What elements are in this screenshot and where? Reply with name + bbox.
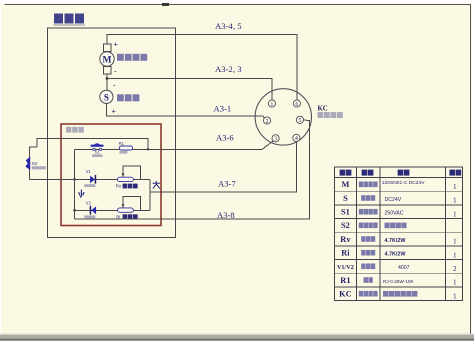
resistor R1 value (119, 151, 127, 154)
label 送丝电机 (feed motor) (117, 54, 147, 61)
diode V2 value (84, 215, 95, 218)
svg-text:+: + (114, 40, 119, 49)
pin 1 (268, 100, 275, 107)
svg-text:1: 1 (453, 280, 456, 287)
wire A3-4,5 from motor + terminal to pin6 (107, 35, 297, 101)
table row S2 name 焊枪开关 (359, 223, 378, 229)
svg-text:, 5: , 5 (233, 21, 242, 31)
svg-text:5: 5 (298, 118, 301, 124)
potentiometer Ri wiper bridge (123, 196, 140, 210)
svg-text:1: 1 (270, 102, 273, 108)
svg-text:Rv: Rv (116, 184, 122, 189)
table row V1/V2 name 二极管 (361, 264, 375, 270)
svg-text:1: 1 (453, 198, 456, 205)
pin 3 (272, 135, 279, 142)
label 大 (increase) (153, 181, 161, 189)
svg-text:S: S (343, 194, 348, 203)
label 小 (decrease) (79, 190, 84, 198)
svg-text:-: - (114, 67, 117, 76)
junction node (73, 209, 76, 212)
svg-text:A3-4: A3-4 (215, 21, 233, 31)
border frame dark dash top (162, 3, 169, 6)
svg-text:6: 6 (295, 102, 298, 108)
svg-text:S2: S2 (341, 221, 350, 230)
svg-text:1: 1 (453, 239, 456, 246)
potentiometer Rv wiper bridge (123, 166, 140, 180)
svg-text:V1/V2: V1/V2 (337, 264, 354, 271)
wire S2 stub left (29, 147, 37, 179)
motor M top terminal (103, 44, 111, 52)
wire S2 top terminal to node A3-6 (37, 138, 148, 149)
svg-text:KC: KC (318, 106, 328, 113)
svg-text:R1: R1 (340, 276, 350, 285)
table row KC spec (383, 291, 417, 297)
svg-text:4007: 4007 (398, 265, 410, 271)
svg-text:A3-7: A3-7 (218, 179, 236, 189)
svg-text:250VAC: 250VAC (385, 211, 404, 217)
table row M name 送丝电机 (359, 182, 378, 188)
switch S2 (torch trigger, blue glyph) (25, 157, 30, 170)
switch S1 note (92, 154, 103, 157)
svg-text:S2: S2 (32, 161, 38, 166)
table row KC name 控制插头 (359, 291, 378, 297)
wire A3-1 S to pin2 (106, 103, 264, 118)
svg-text:4.7K/2W: 4.7K/2W (385, 238, 407, 244)
svg-text:RJ-0.25W-10K: RJ-0.25W-10K (383, 279, 415, 284)
svg-text:R1: R1 (119, 141, 125, 146)
svg-text:4: 4 (295, 136, 298, 142)
label 遥控盒 (remote box) (66, 127, 84, 133)
motor M bottom terminal (103, 67, 111, 75)
junction node dot (106, 77, 109, 80)
wire S1 R1 row / A3-6 to pin3 (75, 141, 274, 150)
label 电磁阀 (solenoid valve) (117, 94, 139, 101)
svg-text:, 3: , 3 (233, 64, 242, 74)
svg-text:A3-6: A3-6 (216, 133, 234, 143)
svg-text:3: 3 (274, 137, 277, 143)
potentiometer Ri (118, 208, 134, 212)
wire M to S with junction (106, 74, 108, 90)
svg-text:S1: S1 (95, 150, 101, 155)
svg-text:V2: V2 (86, 200, 92, 205)
motor M (100, 52, 114, 66)
wire A3-8 left bus to pin5 (75, 120, 310, 219)
svg-text:A3-2: A3-2 (215, 64, 233, 74)
pin 6 (293, 100, 300, 107)
svg-text:Ri: Ri (341, 249, 350, 258)
svg-text:A3-8: A3-8 (217, 210, 235, 220)
diode V2 (90, 206, 96, 215)
table header 规格 (398, 170, 410, 176)
solenoid valve S (100, 90, 113, 103)
resistor R1 (119, 146, 132, 150)
switch S1 (panel switch, blue glyph) (91, 143, 104, 150)
bottom scanner gray band (0, 334, 474, 335)
table row S1 name 船形开关 (359, 209, 378, 215)
svg-text:-: - (113, 81, 116, 90)
wire A3-7 right bus to pin4 (150, 141, 296, 192)
svg-text:2: 2 (266, 119, 269, 125)
svg-text:M: M (103, 56, 112, 66)
svg-text:1: 1 (453, 211, 456, 218)
svg-text:KC: KC (339, 290, 352, 299)
connector KC body circle (255, 89, 311, 145)
wire A3-2,3 junction to pin1 (107, 79, 272, 101)
svg-text:A3-1: A3-1 (214, 104, 232, 114)
title 送丝机 (wire feeder) (54, 14, 86, 26)
potentiometer Rv name 电位器 (123, 184, 138, 189)
diode V1 value (84, 184, 95, 187)
potentiometer Ri name 电位器 (123, 214, 138, 219)
svg-text:M: M (341, 180, 349, 189)
wire V1 Rv row (29, 178, 150, 180)
right bus wire (149, 179, 151, 210)
table header 数量 (449, 170, 461, 176)
pin 5 (296, 116, 303, 123)
diode V1 (90, 175, 96, 184)
svg-text:4.7K/2W: 4.7K/2W (385, 252, 407, 258)
left bus wire (74, 149, 76, 219)
svg-text:+: + (112, 107, 117, 116)
table row S2 spec (385, 223, 407, 229)
wire V2 Ri row (75, 209, 151, 211)
svg-text:1: 1 (453, 184, 456, 191)
table row R1 name 电阻 (364, 277, 373, 283)
svg-text:1: 1 (453, 252, 456, 259)
table row Rv name 电位器 (361, 236, 375, 242)
svg-text:S1: S1 (341, 208, 350, 217)
table row S name 电磁阀 (361, 195, 375, 201)
table header 标记 (340, 170, 352, 176)
table row Ri name 电位器 (361, 250, 375, 256)
svg-text:Rv: Rv (340, 235, 351, 244)
svg-text:1: 1 (453, 293, 456, 300)
potentiometer Rv wiper arrow (122, 173, 125, 177)
wire feeder enclosure box (48, 28, 176, 238)
svg-text:S: S (104, 92, 109, 102)
pin 4 (293, 134, 300, 141)
potentiometer Rv (118, 177, 134, 181)
junction node (73, 178, 76, 181)
junction node (147, 148, 149, 150)
potentiometer Ri wiper arrow (122, 204, 125, 208)
svg-text:120SN01-C DC24V: 120SN01-C DC24V (382, 180, 425, 186)
pin 2 (263, 117, 270, 124)
connector KC name 控制插头 (318, 112, 343, 118)
switch S2 note (user supplied) (32, 166, 46, 169)
parts table grid (334, 167, 462, 301)
svg-text:V1: V1 (86, 169, 92, 174)
svg-text:DC24V: DC24V (385, 197, 402, 203)
remote control box (red) (61, 124, 161, 226)
table header 名称 (362, 170, 374, 176)
svg-text:2: 2 (453, 266, 457, 273)
